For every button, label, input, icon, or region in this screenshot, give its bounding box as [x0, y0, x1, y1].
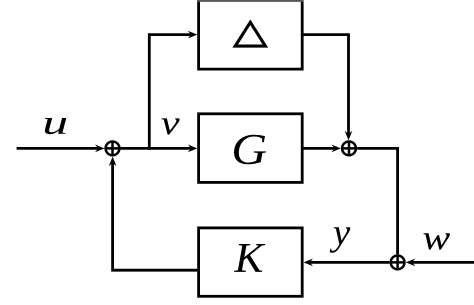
summing junction S1: [106, 142, 120, 156]
label y: [330, 227, 351, 252]
summing junction S3: [391, 256, 405, 270]
label v: [161, 118, 179, 134]
block Delta top edge (clipped grey): [197, 0, 303, 2]
label w: [423, 233, 449, 249]
wire G output to S2: [303, 147, 336, 150]
wire u input: [17, 147, 100, 150]
summing junction S2: [342, 142, 356, 156]
wire branch up to Delta: [149, 35, 193, 150]
block G (plant): [199, 114, 303, 183]
block K (controller): [199, 228, 303, 296]
label u: [45, 118, 67, 134]
block Delta (uncertainty): [199, 0, 303, 69]
label G: [234, 135, 266, 164]
wire S2 down to S3: [357, 148, 397, 254]
label K: [234, 244, 265, 272]
label Delta glyph: [235, 22, 265, 46]
wire S3 to K: [308, 261, 389, 264]
wire Delta output to S2: [303, 35, 348, 137]
wire K feedback to S1: [113, 161, 198, 271]
wire w input: [410, 261, 474, 264]
wire S1 to G: [121, 147, 193, 150]
